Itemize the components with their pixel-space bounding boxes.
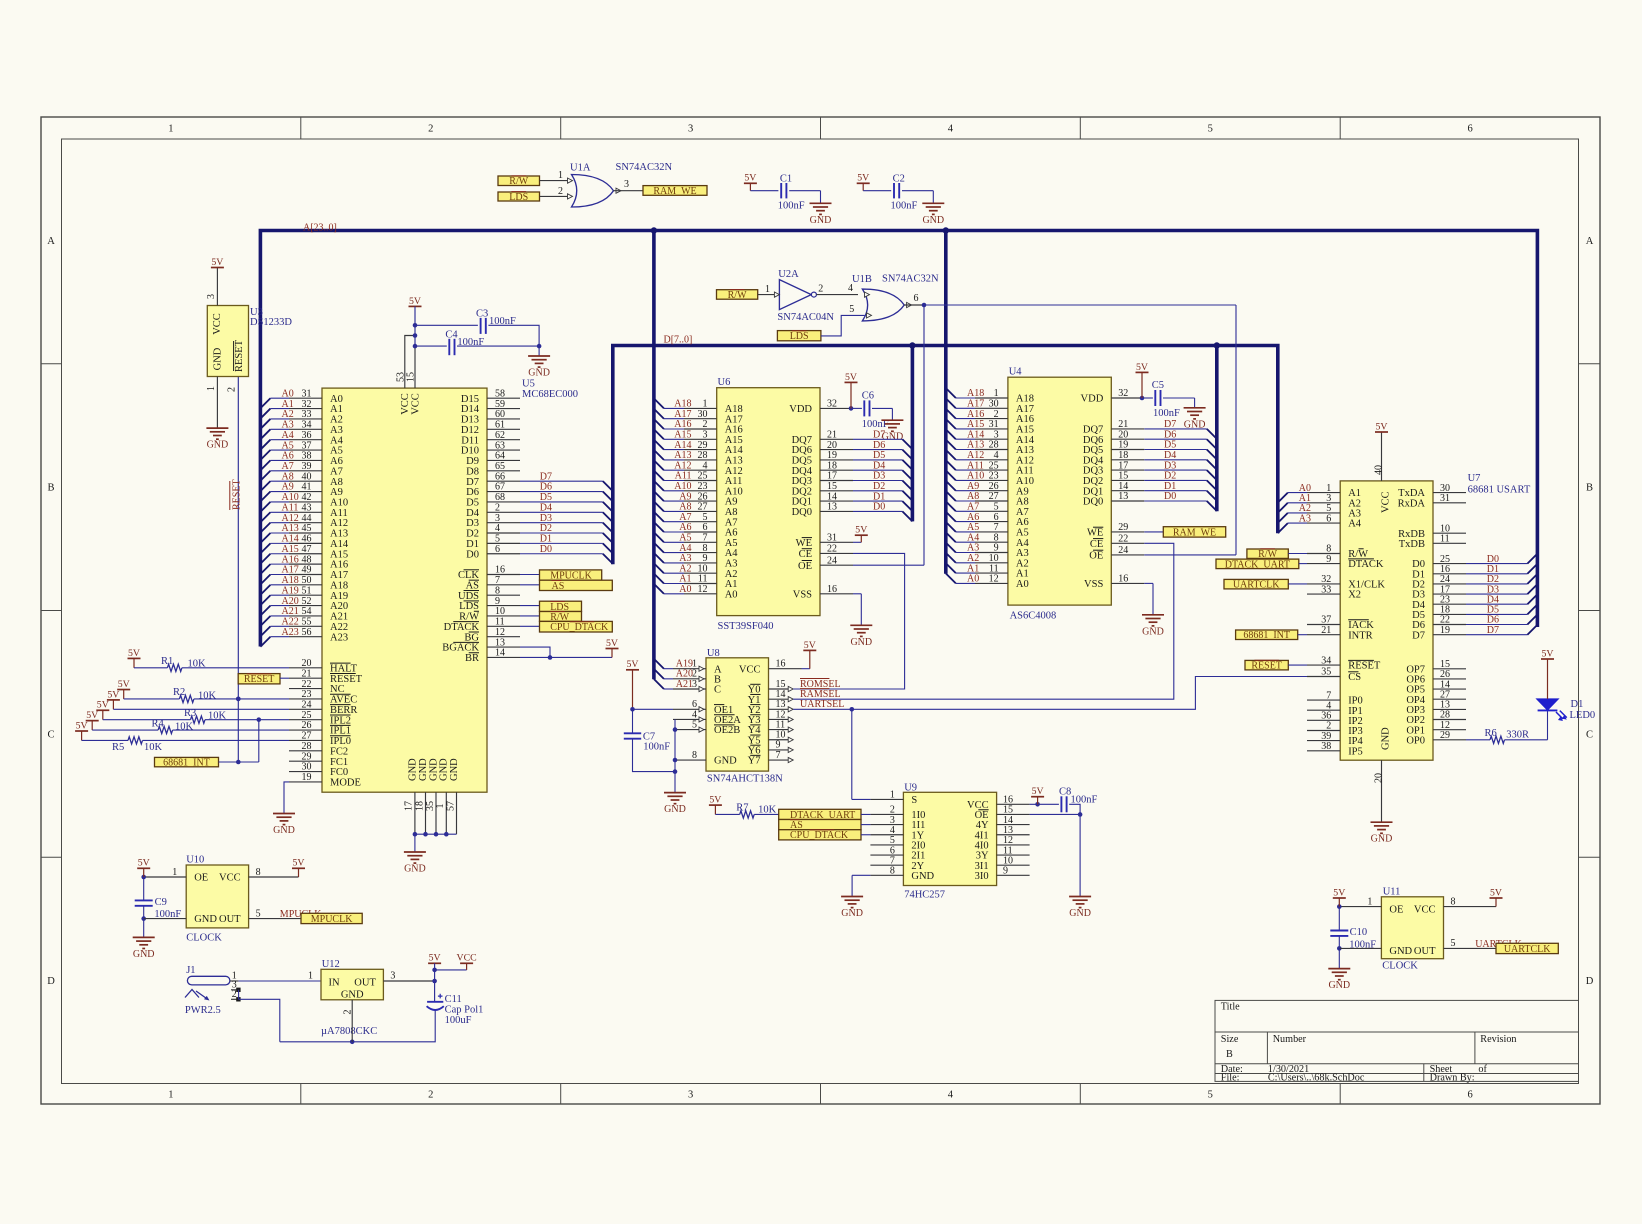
- port 68681_INT (U7 INTR): [1236, 630, 1298, 640]
- wire RESET box to U7 pin 34: [1288, 664, 1307, 666]
- svg-text:61: 61: [495, 420, 505, 431]
- U5 pin 63 D10: [487, 449, 520, 451]
- wire AS to AS port: [520, 584, 540, 586]
- wire AS box to U9 pin 3: [861, 824, 870, 826]
- U7 pin 11 TxDB: [1433, 542, 1466, 544]
- svg-text:22: 22: [1118, 534, 1128, 545]
- svg-text:GND: GND: [418, 758, 429, 781]
- svg-text:UARTSEL: UARTSEL: [800, 699, 844, 710]
- U7 pin 40 VCC to 5V: [1381, 432, 1383, 481]
- resistor R4 10K: [158, 726, 173, 733]
- svg-text:3: 3: [688, 124, 693, 135]
- svg-text:S: S: [911, 795, 917, 806]
- U1B pin 6 output wire to U6 OE and U4 OE: [907, 302, 912, 307]
- or-gate U1B: [862, 289, 904, 321]
- wire MODE to ground: [284, 782, 289, 814]
- svg-text:A4: A4: [1348, 519, 1362, 530]
- net label R/W (U1A input): [498, 176, 540, 186]
- svg-text:GND: GND: [1371, 834, 1393, 845]
- wire C10 to U11 GND and ground: [1338, 936, 1340, 949]
- U7 pin 28 OP2: [1433, 719, 1466, 721]
- U4 pin 18 DQ4 with bus entry: [1111, 459, 1144, 461]
- svg-text:A20: A20: [330, 601, 348, 612]
- U6 pin 30 A17 with bus entry: [654, 409, 664, 419]
- U4 pin 1 A18 with bus entry: [946, 388, 956, 398]
- svg-text:55: 55: [302, 617, 312, 628]
- svg-text:A9: A9: [282, 482, 294, 493]
- U8 pin 10 Y5: [769, 739, 789, 741]
- ground (C8/U9 OE): [1069, 896, 1091, 898]
- svg-text:D0: D0: [1164, 491, 1176, 502]
- svg-text:A14: A14: [282, 534, 299, 545]
- resistor R7 10K: [740, 811, 755, 818]
- svg-text:BGACK: BGACK: [442, 643, 479, 654]
- port RAM_WE (U4 WE): [1163, 527, 1225, 537]
- power 5V (U5 BR): [606, 648, 619, 650]
- J1 pin 3: [231, 989, 239, 991]
- U6 pin 16 VSS: [820, 593, 853, 595]
- svg-text:Cap Pol1: Cap Pol1: [445, 1004, 484, 1015]
- U6 pin 1 A18 with bus entry: [654, 398, 664, 408]
- svg-text:IP5: IP5: [1348, 746, 1363, 757]
- wire C1 to ground: [789, 190, 820, 192]
- svg-text:AVEC: AVEC: [330, 695, 357, 706]
- U7 pin 20 GND to ground: [1381, 760, 1383, 822]
- svg-text:GND: GND: [810, 215, 832, 226]
- svg-text:6: 6: [914, 293, 919, 304]
- svg-text:VCC: VCC: [739, 664, 761, 675]
- U6 pin 25 A11 with bus entry: [654, 471, 664, 481]
- svg-text:24: 24: [827, 555, 837, 566]
- svg-text:2: 2: [558, 186, 563, 197]
- svg-text:A21: A21: [676, 679, 693, 690]
- svg-text:File:: File:: [1221, 1073, 1240, 1084]
- wire VCC to 5V: [802, 668, 810, 670]
- wire U1B output down to U6 OE: [923, 305, 925, 565]
- svg-text:VCC: VCC: [212, 313, 223, 335]
- uart U7 68681 body: [1340, 481, 1433, 760]
- resistor R1 10K: [167, 664, 182, 671]
- U6 pin 8 A4 with bus entry: [654, 543, 664, 553]
- net label R/W (U7): [1247, 549, 1288, 558]
- svg-text:D7: D7: [1487, 625, 1499, 636]
- wire OE2A/OE2B/GND to ground rail: [674, 719, 676, 792]
- svg-text:15: 15: [406, 372, 417, 382]
- svg-text:GND: GND: [1069, 908, 1091, 919]
- svg-text:63: 63: [495, 440, 505, 451]
- svg-text:51: 51: [302, 585, 312, 596]
- svg-text:A13: A13: [330, 529, 348, 540]
- wire 68681_INT to IPL2: [219, 761, 259, 763]
- power 5V (U10): [137, 867, 150, 869]
- resistor R5 10K: [128, 737, 143, 744]
- svg-text:R3: R3: [184, 708, 196, 719]
- svg-text:CLOCK: CLOCK: [186, 933, 222, 944]
- U7 pin 12 OP1: [1433, 729, 1466, 731]
- port R/W (U5): [540, 612, 582, 622]
- svg-text:DTACK: DTACK: [1348, 559, 1384, 570]
- svg-text:A5: A5: [330, 446, 343, 457]
- svg-text:5V: 5V: [1376, 421, 1388, 432]
- U5 pin 45 A13 with bus entry: [260, 533, 270, 543]
- U7 pin 39 IP4: [1307, 740, 1340, 742]
- svg-text:1: 1: [308, 971, 313, 982]
- ground (C1): [810, 202, 832, 204]
- svg-text:5V: 5V: [845, 372, 857, 383]
- wire C6 to ground: [872, 407, 892, 409]
- svg-text:9: 9: [495, 596, 500, 607]
- U4 pin 15 DQ2 with bus entry: [1111, 479, 1144, 481]
- U4 pin 19 DQ5 with bus entry: [1111, 449, 1144, 451]
- wire C9 to U10 GND and ground: [143, 906, 145, 919]
- svg-text:UDS: UDS: [458, 591, 479, 602]
- svg-text:4: 4: [848, 283, 853, 294]
- svg-text:GND: GND: [449, 758, 460, 781]
- svg-text:IPL2: IPL2: [330, 715, 351, 726]
- U6 pin 15 DQ2 with bus entry: [820, 490, 853, 492]
- svg-text:A3: A3: [330, 425, 343, 436]
- svg-text:B: B: [47, 483, 54, 494]
- svg-text:49: 49: [302, 565, 312, 576]
- svg-text:A0: A0: [725, 589, 738, 600]
- wire BGACK to BR net: [520, 647, 550, 657]
- svg-text:VCC: VCC: [400, 393, 411, 415]
- U6 pin 11 A1 with bus entry: [654, 574, 664, 584]
- U5 pin 15 VCC: [414, 346, 416, 388]
- svg-text:GND: GND: [850, 637, 872, 648]
- U6 pin 21 DQ7 with bus entry: [820, 438, 853, 440]
- U5 pin 17 GND: [414, 792, 416, 834]
- svg-text:41: 41: [302, 482, 312, 493]
- U8 pin 1 A (A19) with bus entry: [654, 659, 664, 669]
- U1A pin 3 output wire: [616, 188, 621, 193]
- svg-text:Y7: Y7: [748, 756, 761, 767]
- U6 pin 9 A3 with bus entry: [654, 553, 664, 563]
- svg-text:GND: GND: [407, 758, 418, 781]
- U4 pin 6 A6 with bus entry: [946, 512, 956, 522]
- svg-text:2: 2: [342, 1010, 353, 1015]
- svg-text:A22: A22: [330, 622, 348, 633]
- svg-text:1: 1: [168, 124, 173, 135]
- svg-text:X2: X2: [1348, 590, 1361, 601]
- svg-text:DTACK_UART: DTACK_UART: [1225, 559, 1290, 570]
- svg-text:R1: R1: [161, 656, 173, 667]
- wire C8 to ground rail: [1069, 804, 1080, 896]
- U5 pin 44 A12 with bus entry: [260, 523, 270, 533]
- U3 pin 3 wire to 5V: [216, 268, 218, 306]
- svg-text:48: 48: [302, 554, 312, 565]
- svg-text:38: 38: [1321, 741, 1331, 752]
- svg-text:VCC: VCC: [1381, 491, 1392, 513]
- svg-text:RESET: RESET: [330, 674, 363, 685]
- svg-text:26: 26: [302, 720, 312, 731]
- svg-text:A8: A8: [282, 471, 294, 482]
- power 5V (R5): [75, 730, 88, 732]
- wire 5V pull-up R2 row: [123, 690, 125, 699]
- svg-text:16: 16: [1118, 574, 1128, 585]
- svg-text:A: A: [47, 236, 55, 247]
- svg-text:5V: 5V: [429, 953, 441, 964]
- U4 pin 14 DQ1 with bus entry: [1111, 490, 1144, 492]
- svg-text:A14: A14: [330, 539, 349, 550]
- svg-text:GND: GND: [273, 825, 295, 836]
- U10 pin 5 OUT wire: [249, 918, 301, 920]
- U6 pin 17 DQ3 with bus entry: [820, 480, 853, 482]
- svg-text:GND: GND: [714, 756, 737, 767]
- svg-text:Size: Size: [1221, 1034, 1239, 1045]
- U5 pin 49 A17 with bus entry: [260, 574, 270, 584]
- svg-text:5V: 5V: [211, 257, 223, 268]
- svg-text:OE2B: OE2B: [714, 725, 740, 736]
- U7 pin 22 D6 with bus entry: [1433, 624, 1466, 626]
- U4 pin 13 DQ0 with bus entry: [1111, 500, 1144, 502]
- reset supervisor U3 DS1233D: [207, 306, 248, 377]
- svg-text:A18: A18: [282, 575, 299, 586]
- power 5V (U12 OUT): [428, 962, 441, 964]
- wire UARTCLK box to U7 pin 32: [1288, 583, 1307, 585]
- U4 pin 25 A11 with bus entry: [946, 460, 956, 470]
- svg-text:RESET: RESET: [234, 339, 245, 372]
- svg-text:6: 6: [1467, 124, 1472, 135]
- svg-text:GND: GND: [404, 864, 426, 875]
- U3 pin 1 wire to ground: [216, 377, 218, 429]
- svg-text:GND: GND: [1328, 980, 1350, 991]
- U5 pin 43 A11 with bus entry: [260, 512, 270, 522]
- port MPUCLK (U10 OUT): [301, 913, 362, 923]
- capacitor C7: [624, 732, 641, 734]
- net label RESET (U7): [1245, 660, 1288, 670]
- svg-text:12: 12: [698, 584, 708, 595]
- svg-text:21: 21: [302, 668, 312, 679]
- svg-text:9: 9: [1326, 554, 1331, 565]
- U5 pin 18 GND: [425, 792, 427, 834]
- U5 pin 34 A3 with bus entry: [260, 429, 270, 439]
- U9 pin 10 3I1: [997, 864, 1030, 866]
- U7 pin 6 A4 with bus entry: [1278, 523, 1288, 533]
- svg-text:1: 1: [206, 386, 217, 391]
- U5 pin 61 D12: [487, 428, 520, 430]
- U7 pin 16 D1 with bus entry: [1433, 573, 1466, 575]
- U11 pin 8 VCC wire to 5V: [1444, 906, 1497, 908]
- svg-text:59: 59: [495, 399, 505, 410]
- wire CPU_DTACK box to U9 pin 4: [861, 834, 870, 836]
- svg-text:SN74AC04N: SN74AC04N: [777, 312, 834, 323]
- inverter U2A: [779, 280, 811, 310]
- svg-text:5: 5: [495, 534, 500, 545]
- svg-text:8: 8: [495, 585, 500, 596]
- svg-text:A0: A0: [967, 574, 979, 585]
- U7 pin 29 OP0: [1433, 739, 1466, 741]
- U7 pin 4 IP1: [1307, 709, 1340, 711]
- svg-text:RESET: RESET: [1251, 661, 1282, 672]
- U5 pin 27 IPL0: [289, 739, 322, 741]
- svg-text:A11: A11: [330, 508, 348, 519]
- svg-text:A0: A0: [679, 584, 691, 595]
- wire UARTSEL down to U9 S: [851, 709, 853, 799]
- U9 pin 5 2I0: [870, 844, 903, 846]
- svg-text:CS: CS: [1348, 672, 1361, 683]
- svg-text:A23: A23: [330, 632, 348, 643]
- U7 pin 33 X2: [1307, 593, 1340, 595]
- port LDS (U5): [540, 601, 582, 611]
- svg-text:33: 33: [1321, 584, 1331, 595]
- net label LDS (U1B input): [777, 331, 821, 341]
- wire C5 to ground: [1163, 397, 1195, 399]
- U5 pin 41 A9 with bus entry: [260, 492, 270, 502]
- capacitor C3: [415, 324, 478, 326]
- svg-text:64: 64: [495, 451, 505, 462]
- svg-text:1: 1: [765, 284, 770, 295]
- U6 pin 14 DQ1 with bus entry: [820, 500, 853, 502]
- svg-text:C1: C1: [780, 173, 792, 184]
- svg-text:68681_INT: 68681_INT: [1243, 630, 1290, 641]
- svg-text:GND: GND: [1389, 946, 1412, 957]
- U4 pin 26 A9 with bus entry: [946, 481, 956, 491]
- svg-text:3: 3: [688, 1090, 693, 1101]
- wire VCC to 5V and C8: [1030, 803, 1059, 805]
- port DTACK_UART (U7): [1216, 559, 1299, 569]
- svg-text:50: 50: [302, 575, 312, 586]
- power 5V (U6 WE): [855, 534, 868, 536]
- svg-text:CLK: CLK: [458, 570, 479, 581]
- svg-text:C3: C3: [476, 308, 488, 319]
- svg-text:34: 34: [302, 420, 312, 431]
- U5 pin 24 BERR: [289, 708, 322, 710]
- U5 pin 4 D2: [487, 532, 520, 534]
- svg-text:32: 32: [302, 399, 312, 410]
- svg-text:D7: D7: [540, 471, 552, 482]
- svg-text:16: 16: [827, 584, 837, 595]
- svg-text:AS: AS: [552, 581, 565, 592]
- svg-text:16: 16: [495, 565, 505, 576]
- U6 pin 4 A12 with bus entry: [654, 460, 664, 470]
- svg-text:GND: GND: [1381, 727, 1392, 750]
- U5 pin 66 D7: [487, 480, 520, 482]
- svg-text:31: 31: [827, 533, 837, 544]
- LED D1: [1537, 699, 1559, 710]
- bus D branch to U6: [911, 346, 915, 522]
- wire LDS to U1B pin 5: [821, 315, 865, 336]
- svg-text:GND: GND: [133, 949, 155, 960]
- svg-text:A21: A21: [282, 606, 299, 617]
- power 5V (BERR): [107, 699, 120, 701]
- wire 5V pull-up R5 row: [81, 731, 83, 740]
- svg-text:4: 4: [948, 1090, 954, 1101]
- wire ROMSEL net (U8 Y0 to U6 CE): [793, 553, 904, 689]
- svg-text:U1B: U1B: [852, 274, 872, 285]
- svg-text:5: 5: [1451, 938, 1456, 949]
- power 5V (U7 VCC): [1375, 431, 1388, 433]
- svg-text:SN74AC32N: SN74AC32N: [882, 274, 939, 285]
- svg-text:A1: A1: [282, 399, 294, 410]
- U9 pin 6 2I1: [870, 854, 903, 856]
- capacitor C5: [1154, 390, 1156, 406]
- power 5V (R2): [117, 689, 130, 691]
- power 5V (U8 VCC): [803, 649, 816, 651]
- power 5V (C2): [857, 182, 870, 184]
- svg-text:5V: 5V: [76, 720, 88, 731]
- svg-text:D1: D1: [466, 539, 479, 550]
- U10 pin 8 VCC wire to 5V: [249, 876, 299, 878]
- svg-text:52: 52: [302, 596, 312, 607]
- U5 pin 6 D0: [487, 553, 520, 555]
- U5 pin 16 CLK: [487, 573, 520, 575]
- U5 pin 39 A7 with bus entry: [260, 471, 270, 481]
- svg-text:UARTCLK: UARTCLK: [1504, 944, 1551, 955]
- svg-text:5V: 5V: [857, 173, 869, 184]
- wire VDD to C6: [853, 407, 862, 409]
- svg-text:D6: D6: [540, 482, 552, 493]
- U4 pin 23 A10 with bus entry: [946, 470, 956, 480]
- svg-text:D4: D4: [466, 508, 480, 519]
- svg-text:24: 24: [302, 700, 312, 711]
- svg-text:IPL1: IPL1: [330, 726, 351, 737]
- U5 pin 11 DTACK: [487, 625, 520, 627]
- wire C7 to ground: [633, 739, 676, 772]
- U7 pin 38 IP5: [1307, 750, 1340, 752]
- svg-text:100nF: 100nF: [778, 200, 805, 211]
- wire U3 pin2 RESET vertical: [237, 377, 239, 763]
- U5 pin 48 A16 with bus entry: [260, 564, 270, 574]
- U7 pin 17 D3 with bus entry: [1433, 593, 1466, 595]
- U6 pin 13 DQ0 with bus entry: [820, 510, 853, 512]
- wire 5V pull-up R3 row: [102, 710, 104, 719]
- svg-text:U10: U10: [186, 855, 204, 866]
- svg-text:9: 9: [1003, 866, 1008, 877]
- U9 pin 12 4I0: [997, 844, 1030, 846]
- svg-text:U12: U12: [322, 959, 340, 970]
- svg-text:TxDB: TxDB: [1399, 539, 1425, 550]
- flash U6 SST39SF040 body: [717, 388, 820, 616]
- svg-text:12: 12: [989, 574, 999, 585]
- power 5V (R4): [86, 720, 99, 722]
- U7 pin 23 D4 with bus entry: [1433, 603, 1466, 605]
- svg-text:330R: 330R: [1506, 730, 1529, 741]
- svg-text:10K: 10K: [198, 691, 217, 702]
- U8 pin 7 Y7: [769, 759, 789, 761]
- svg-text:33: 33: [302, 409, 312, 420]
- power 5V (C5/U4 VDD): [1136, 371, 1149, 373]
- net label RESET (U5 RESET pin): [238, 674, 280, 684]
- svg-text:60: 60: [495, 409, 505, 420]
- svg-text:5V: 5V: [606, 638, 618, 649]
- svg-text:27: 27: [302, 731, 312, 742]
- wire J1 pin1 to U12 IN: [239, 980, 321, 982]
- svg-text:D1: D1: [540, 534, 552, 545]
- svg-text:R7: R7: [736, 802, 748, 813]
- svg-text:5V: 5V: [744, 173, 756, 184]
- svg-text:5V: 5V: [1490, 887, 1502, 898]
- U5 pin 23 AVEC: [289, 698, 322, 700]
- U8 pin 2 B (A20) with bus entry: [654, 669, 664, 679]
- U5 pin 8 UDS: [487, 594, 520, 596]
- svg-text:VCC: VCC: [457, 953, 477, 964]
- wire 5V pull-up R1 row: [133, 658, 135, 667]
- svg-text:18: 18: [414, 801, 425, 811]
- oscillator U11 CLOCK body: [1381, 897, 1443, 959]
- svg-text:2: 2: [227, 387, 238, 392]
- U10 pin 1 OE wire to 5V: [144, 876, 187, 878]
- U9 pin 8 GND: [870, 874, 903, 876]
- svg-text:Title: Title: [1221, 1002, 1240, 1013]
- svg-text:GND: GND: [922, 215, 944, 226]
- U6 pin 28 A13 with bus entry: [654, 450, 664, 460]
- svg-text:MODE: MODE: [330, 777, 361, 788]
- ground (U3): [206, 427, 228, 429]
- svg-text:40: 40: [1373, 465, 1384, 475]
- svg-text:D2: D2: [466, 529, 479, 540]
- ground (U11/C10): [1328, 968, 1350, 970]
